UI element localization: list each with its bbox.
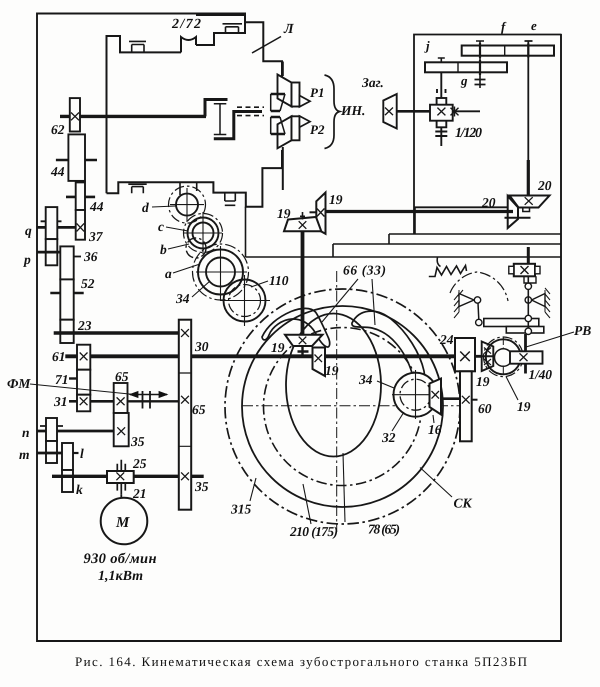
circle 78(65) dash-dot (264, 328, 422, 486)
housing outline Л (107, 15, 283, 207)
bevel P2 (278, 116, 292, 148)
centerline crosses (170, 188, 270, 326)
shaft j below worm (435, 127, 447, 146)
svg-text:930 об/мин: 930 об/мин (84, 551, 157, 567)
gear g bars (475, 80, 486, 85)
gear n stack (46, 418, 57, 441)
svg-text:21: 21 (132, 486, 147, 501)
labels of circles (230, 263, 473, 540)
gear 44 lower (76, 182, 85, 210)
clutch lower bar (214, 112, 262, 139)
svg-text:36: 36 (83, 249, 98, 264)
worm box on shaft e (527, 247, 530, 264)
svg-text:34: 34 (358, 372, 373, 387)
svg-text:ФМ: ФМ (7, 376, 31, 391)
РВ worm drive (472, 323, 592, 400)
vertical thick shaft (301, 231, 305, 334)
gear 34/32 circle with bevel 16 (358, 370, 460, 445)
svg-text:p: p (23, 252, 31, 267)
left hatched pivot (454, 290, 463, 318)
svg-text:19: 19 (476, 374, 490, 389)
gear rect f (462, 46, 554, 56)
svg-text:g: g (460, 73, 468, 88)
lever bars (484, 319, 539, 327)
svg-text:61: 61 (52, 349, 66, 364)
brace (325, 75, 340, 149)
svg-text:110: 110 (269, 273, 289, 288)
table strip (246, 207, 562, 257)
svg-text:n: n (22, 425, 30, 440)
gear 37 (76, 210, 85, 240)
motor M (101, 498, 148, 545)
bearing on housing bottom left (128, 184, 146, 193)
shaft 62 (60, 115, 206, 118)
svg-text:СК: СК (454, 496, 473, 511)
svg-text:24: 24 (439, 332, 454, 347)
centerlines (336, 271, 338, 532)
left column labels (23, 122, 104, 333)
svg-text:f: f (501, 19, 507, 34)
svg-text:44: 44 (50, 164, 65, 179)
shaft f (476, 41, 484, 89)
svg-text:62: 62 (51, 122, 65, 137)
svg-text:1/40: 1/40 (529, 367, 553, 382)
svg-text:2/72: 2/72 (171, 17, 201, 32)
svg-text:315: 315 (230, 502, 252, 517)
spline dashes (237, 107, 264, 115)
svg-text:44: 44 (89, 199, 104, 214)
svg-text:65: 65 (115, 369, 129, 384)
gear c (193, 223, 214, 244)
gear 65 (114, 383, 128, 413)
bevel 19 trapezoid lower (285, 335, 323, 346)
worm unit 1/120 (430, 72, 480, 146)
2/72 worm cylinder (181, 37, 196, 52)
svg-text:65: 65 (192, 402, 206, 417)
svg-text:60: 60 (478, 401, 492, 416)
svg-text:Рис. 164. Кинематическая сх: Рис. 164. Кинематическая схема зубострог… (75, 654, 527, 669)
svg-text:19: 19 (325, 363, 339, 378)
kidney slot right 66(33) (352, 311, 425, 384)
leaders (250, 279, 452, 524)
kidney slot left 66(33) (262, 308, 330, 347)
svg-text:Л: Л (283, 22, 294, 37)
svg-text:М: М (115, 515, 130, 531)
side cones on horizontal axis (270, 94, 272, 134)
svg-text:Заг.: Заг. (361, 75, 384, 90)
svg-text:e: e (531, 18, 537, 33)
svg-text:19: 19 (517, 399, 531, 414)
shaft e long vertical (525, 41, 533, 197)
svg-text:37: 37 (88, 229, 104, 244)
svg-text:78 (65): 78 (65) (368, 522, 400, 537)
svg-text:d: d (142, 200, 149, 215)
svg-text:210 (175): 210 (175) (289, 524, 338, 539)
gear a (206, 258, 235, 287)
shaft p (37, 251, 63, 254)
bevel P1 (278, 75, 292, 107)
svg-text:1,1кВт: 1,1кВт (98, 569, 143, 584)
gear block on shaft 61 (77, 345, 90, 370)
svg-text:30: 30 (194, 339, 209, 354)
dash-dot arc (450, 272, 508, 301)
svg-text:РВ: РВ (574, 323, 591, 338)
coupling I-bars (214, 104, 227, 135)
bevel 19 trapezoid on vertical shaft (284, 217, 321, 231)
bevel Заг flag (383, 94, 396, 129)
bevel 20 pair (505, 160, 550, 228)
shaft m (37, 452, 62, 455)
svg-text:35: 35 (194, 479, 209, 494)
shaft k (21) (52, 475, 204, 478)
bearing on housing top step (128, 24, 242, 206)
differential carrier axis (282, 62, 284, 77)
svg-text:Р1: Р1 (310, 85, 324, 100)
ratchet zigzag (429, 266, 467, 277)
shaft 31 (69, 400, 77, 403)
link to motor (120, 495, 122, 499)
shaft q (37, 226, 76, 229)
svg-text:20: 20 (537, 178, 552, 193)
svg-text:19: 19 (271, 340, 285, 355)
gear l k (62, 443, 73, 470)
svg-text:71: 71 (55, 372, 69, 387)
gear 35 (on shaft n) (114, 413, 129, 446)
svg-text:ИН.: ИН. (340, 103, 365, 118)
svg-text:q: q (25, 223, 32, 238)
bearing on housing bottom right (225, 193, 236, 206)
svg-text:66 (33): 66 (33) (343, 263, 386, 278)
gear 44 upper (68, 134, 85, 181)
labels d c b a 34 110 (142, 200, 289, 306)
svg-text:32: 32 (381, 430, 396, 445)
gear rect j (425, 62, 507, 72)
friction clutch ФМ arrows (130, 394, 167, 396)
cam egg curve (286, 314, 381, 457)
svg-text:c: c (158, 219, 164, 234)
svg-text:b: b (160, 242, 167, 257)
label Л with leader (252, 37, 281, 54)
right hatched pivot (545, 288, 550, 318)
bevel flag 19 top (316, 193, 325, 234)
frame border (37, 14, 561, 642)
svg-text:a: a (165, 266, 172, 281)
clutch jog up (205, 100, 228, 117)
svg-text:19: 19 (277, 206, 291, 221)
svg-text:j: j (424, 38, 430, 53)
svg-text:20: 20 (481, 195, 496, 210)
box (414, 35, 562, 235)
gear 36 / 52 block (60, 246, 73, 279)
labels P1 P2 ИН (310, 85, 365, 137)
long horizontal shaft to bevel 19 (326, 210, 513, 213)
svg-text:16: 16 (428, 422, 442, 437)
shaft j above worm (437, 72, 446, 98)
circle 210(175) solid (242, 306, 443, 507)
circle 315 dash-dot (225, 289, 460, 524)
hanging bevel flag 19 (313, 348, 326, 377)
shaft 71 tick (69, 377, 77, 379)
gear 110 (224, 280, 266, 322)
bevel pair 19/19 right (475, 342, 531, 415)
gear 62 (70, 98, 80, 131)
svg-text:Р2: Р2 (310, 122, 325, 137)
svg-text:35: 35 (130, 434, 145, 449)
motor pinion block 25 (107, 471, 134, 483)
svg-text:25: 25 (132, 456, 147, 471)
svg-text:m: m (19, 447, 30, 462)
shaft j stub (438, 58, 445, 63)
bearing on housing top right step (223, 24, 243, 33)
svg-text:23: 23 (77, 318, 92, 333)
gear b (186, 238, 206, 258)
shaft to worm 1/120 (397, 110, 430, 113)
svg-text:31: 31 (53, 394, 68, 409)
labels (7, 349, 157, 584)
ФМ leader (30, 384, 134, 395)
shaft 23 (54, 331, 179, 334)
gear d (176, 194, 198, 216)
vertical shaft e lower with joints (527, 277, 529, 333)
svg-text:1/120: 1/120 (455, 126, 482, 141)
gear d slot notch (180, 182, 197, 195)
svg-text:52: 52 (81, 276, 95, 291)
svg-text:19: 19 (329, 192, 343, 207)
svg-text:k: k (76, 482, 83, 497)
svg-text:l: l (80, 446, 84, 461)
svg-text:34: 34 (175, 291, 190, 306)
labels j f e g (424, 18, 537, 88)
gear q stack (46, 207, 58, 239)
shaft n (37, 430, 114, 433)
hook from table (437, 257, 440, 267)
